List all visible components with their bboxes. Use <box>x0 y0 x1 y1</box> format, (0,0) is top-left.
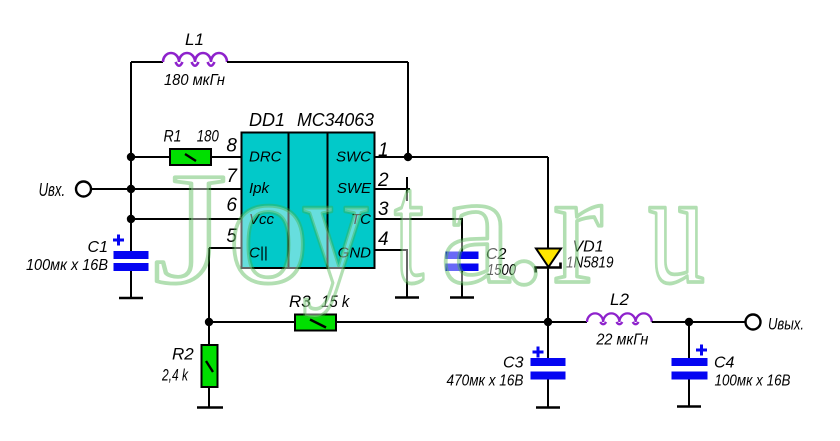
junction: rail / R1 wire <box>127 153 135 161</box>
watermark Joyta.ru <box>153 105 705 326</box>
junction: rail / Vcc wire <box>127 215 135 223</box>
inductor L1 <box>163 53 227 66</box>
junction: rail / input wire <box>127 185 135 193</box>
resistor R2 <box>202 345 218 387</box>
wire: C3 to ground <box>547 380 549 408</box>
wire: input terminal to pin 7 <box>91 188 242 190</box>
svg-text:Uвх.: Uвх. <box>39 180 66 200</box>
svg-text:.: . <box>499 105 549 326</box>
svg-text:MC34063: MC34063 <box>297 110 374 130</box>
wire: R2 to ground <box>208 387 210 407</box>
terminal Uвых. <box>746 315 761 330</box>
svg-text:u: u <box>648 139 705 318</box>
svg-text:R2: R2 <box>172 345 194 364</box>
wire: C1 to ground <box>130 271 132 298</box>
wire: output node to L2 <box>548 321 587 323</box>
svg-text:C1: C1 <box>88 239 108 256</box>
wire: output node to C3 <box>547 322 549 358</box>
capacitor C2 <box>446 252 479 272</box>
svg-text:Uвых.: Uвых. <box>768 315 804 334</box>
wire: L2 to output terminal <box>652 321 746 323</box>
svg-text:r: r <box>553 139 603 318</box>
wire: top rail from input rail to L1 <box>131 61 163 63</box>
ground: C3 <box>536 406 560 409</box>
capacitor C1 <box>114 251 149 271</box>
wire: rail to R1 <box>131 156 170 158</box>
wire: diode to output node <box>547 267 549 322</box>
svg-text:180 мкГн: 180 мкГн <box>164 72 225 89</box>
ground: R2 <box>197 406 223 409</box>
svg-text:100мк x 16В: 100мк x 16В <box>26 257 108 274</box>
capacitor C4 polarity + <box>696 345 707 356</box>
IC DD1 MC34063 <box>242 133 375 269</box>
inductor L2 <box>587 313 652 324</box>
ground: C2 <box>450 296 474 299</box>
wire: pin 1 net down to diode VD1 <box>547 157 549 249</box>
svg-text:3: 3 <box>378 199 389 220</box>
capacitor C4 <box>672 358 708 380</box>
wire: left input rail <box>130 62 132 251</box>
svg-text:100мк x 16В: 100мк x 16В <box>715 373 791 390</box>
wire: pin 3 to C2 <box>374 219 462 252</box>
capacitor C1 polarity + <box>113 235 124 246</box>
svg-text:22 мкГн: 22 мкГн <box>595 332 648 349</box>
svg-text:2,4 k: 2,4 k <box>161 366 189 385</box>
wire: pin 5 vertical down to feedback node <box>208 248 210 322</box>
diode VD1 (Schottky) <box>536 249 562 273</box>
svg-text:2: 2 <box>377 170 389 191</box>
wire: pin 2 end bar <box>406 177 408 201</box>
svg-text:L2: L2 <box>610 290 629 309</box>
capacitor C3 polarity + <box>533 347 544 358</box>
terminal Uвх. <box>76 182 91 197</box>
capacitor C3 <box>531 358 566 380</box>
svg-text:C3: C3 <box>503 355 524 372</box>
wire: vertical drop from top rail to pin 1 net <box>407 62 409 157</box>
wire: C4 to ground <box>688 380 690 407</box>
svg-text:4: 4 <box>378 229 389 250</box>
wire: R3 to output node <box>336 321 548 323</box>
svg-text:C4: C4 <box>714 355 735 372</box>
svg-text:DD1: DD1 <box>249 110 285 130</box>
wire: pin 2 stub <box>374 188 410 190</box>
wire: C4 node down to C4 <box>688 322 690 358</box>
svg-text:470мк x 16В: 470мк x 16В <box>447 373 524 390</box>
ground: C1 <box>119 297 143 300</box>
wire: feedback node to R3 <box>209 321 295 323</box>
junction: C4 node <box>685 318 693 326</box>
wire: pin 5 stub <box>209 247 242 249</box>
ground: C4 <box>677 405 701 408</box>
wire: rail to pin 6 <box>131 218 242 220</box>
junction: output node <box>544 318 552 326</box>
wire: R1 to pin 8 <box>211 156 242 158</box>
wire: pin 1 to diode branch <box>374 156 548 158</box>
svg-text:o: o <box>228 139 309 318</box>
junction: feedback node <box>205 318 213 326</box>
ground: pin 4 <box>395 296 419 299</box>
svg-text:L1: L1 <box>185 30 204 49</box>
svg-text:t: t <box>394 139 424 318</box>
junction: top rail / pin 1 <box>404 153 412 161</box>
wire: feedback node to R2 <box>208 322 210 345</box>
wire: C2 to ground <box>461 271 463 297</box>
wire: top rail from L1 to drop <box>227 61 408 63</box>
svg-text:y: y <box>302 139 368 318</box>
resistor R3 <box>295 315 336 331</box>
svg-text:J: J <box>153 139 227 317</box>
resistor R1 <box>170 149 211 165</box>
wire: pin 4 to ground <box>374 250 407 297</box>
